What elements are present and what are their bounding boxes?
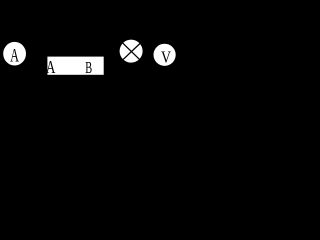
voltmeter V (154, 44, 176, 67)
wire right side down (100, 51, 150, 120)
lamp L (120, 40, 143, 63)
wire bottom-left up to ammeter (8, 60, 30, 120)
rheostat (resistance wire) AB (46, 57, 104, 78)
wire top-left from ammeter to rheostat (26, 53, 48, 55)
svg-text:V: V (161, 48, 172, 67)
svg-text:B: B (85, 58, 92, 76)
wire lamp to voltmeter node (142, 50, 150, 52)
svg-text:A: A (10, 46, 19, 66)
switch (30, 112, 92, 120)
ammeter A (3, 42, 26, 66)
wire rheostat to lamp (103, 51, 120, 66)
battery (92, 112, 100, 128)
svg-text:A: A (46, 58, 56, 77)
